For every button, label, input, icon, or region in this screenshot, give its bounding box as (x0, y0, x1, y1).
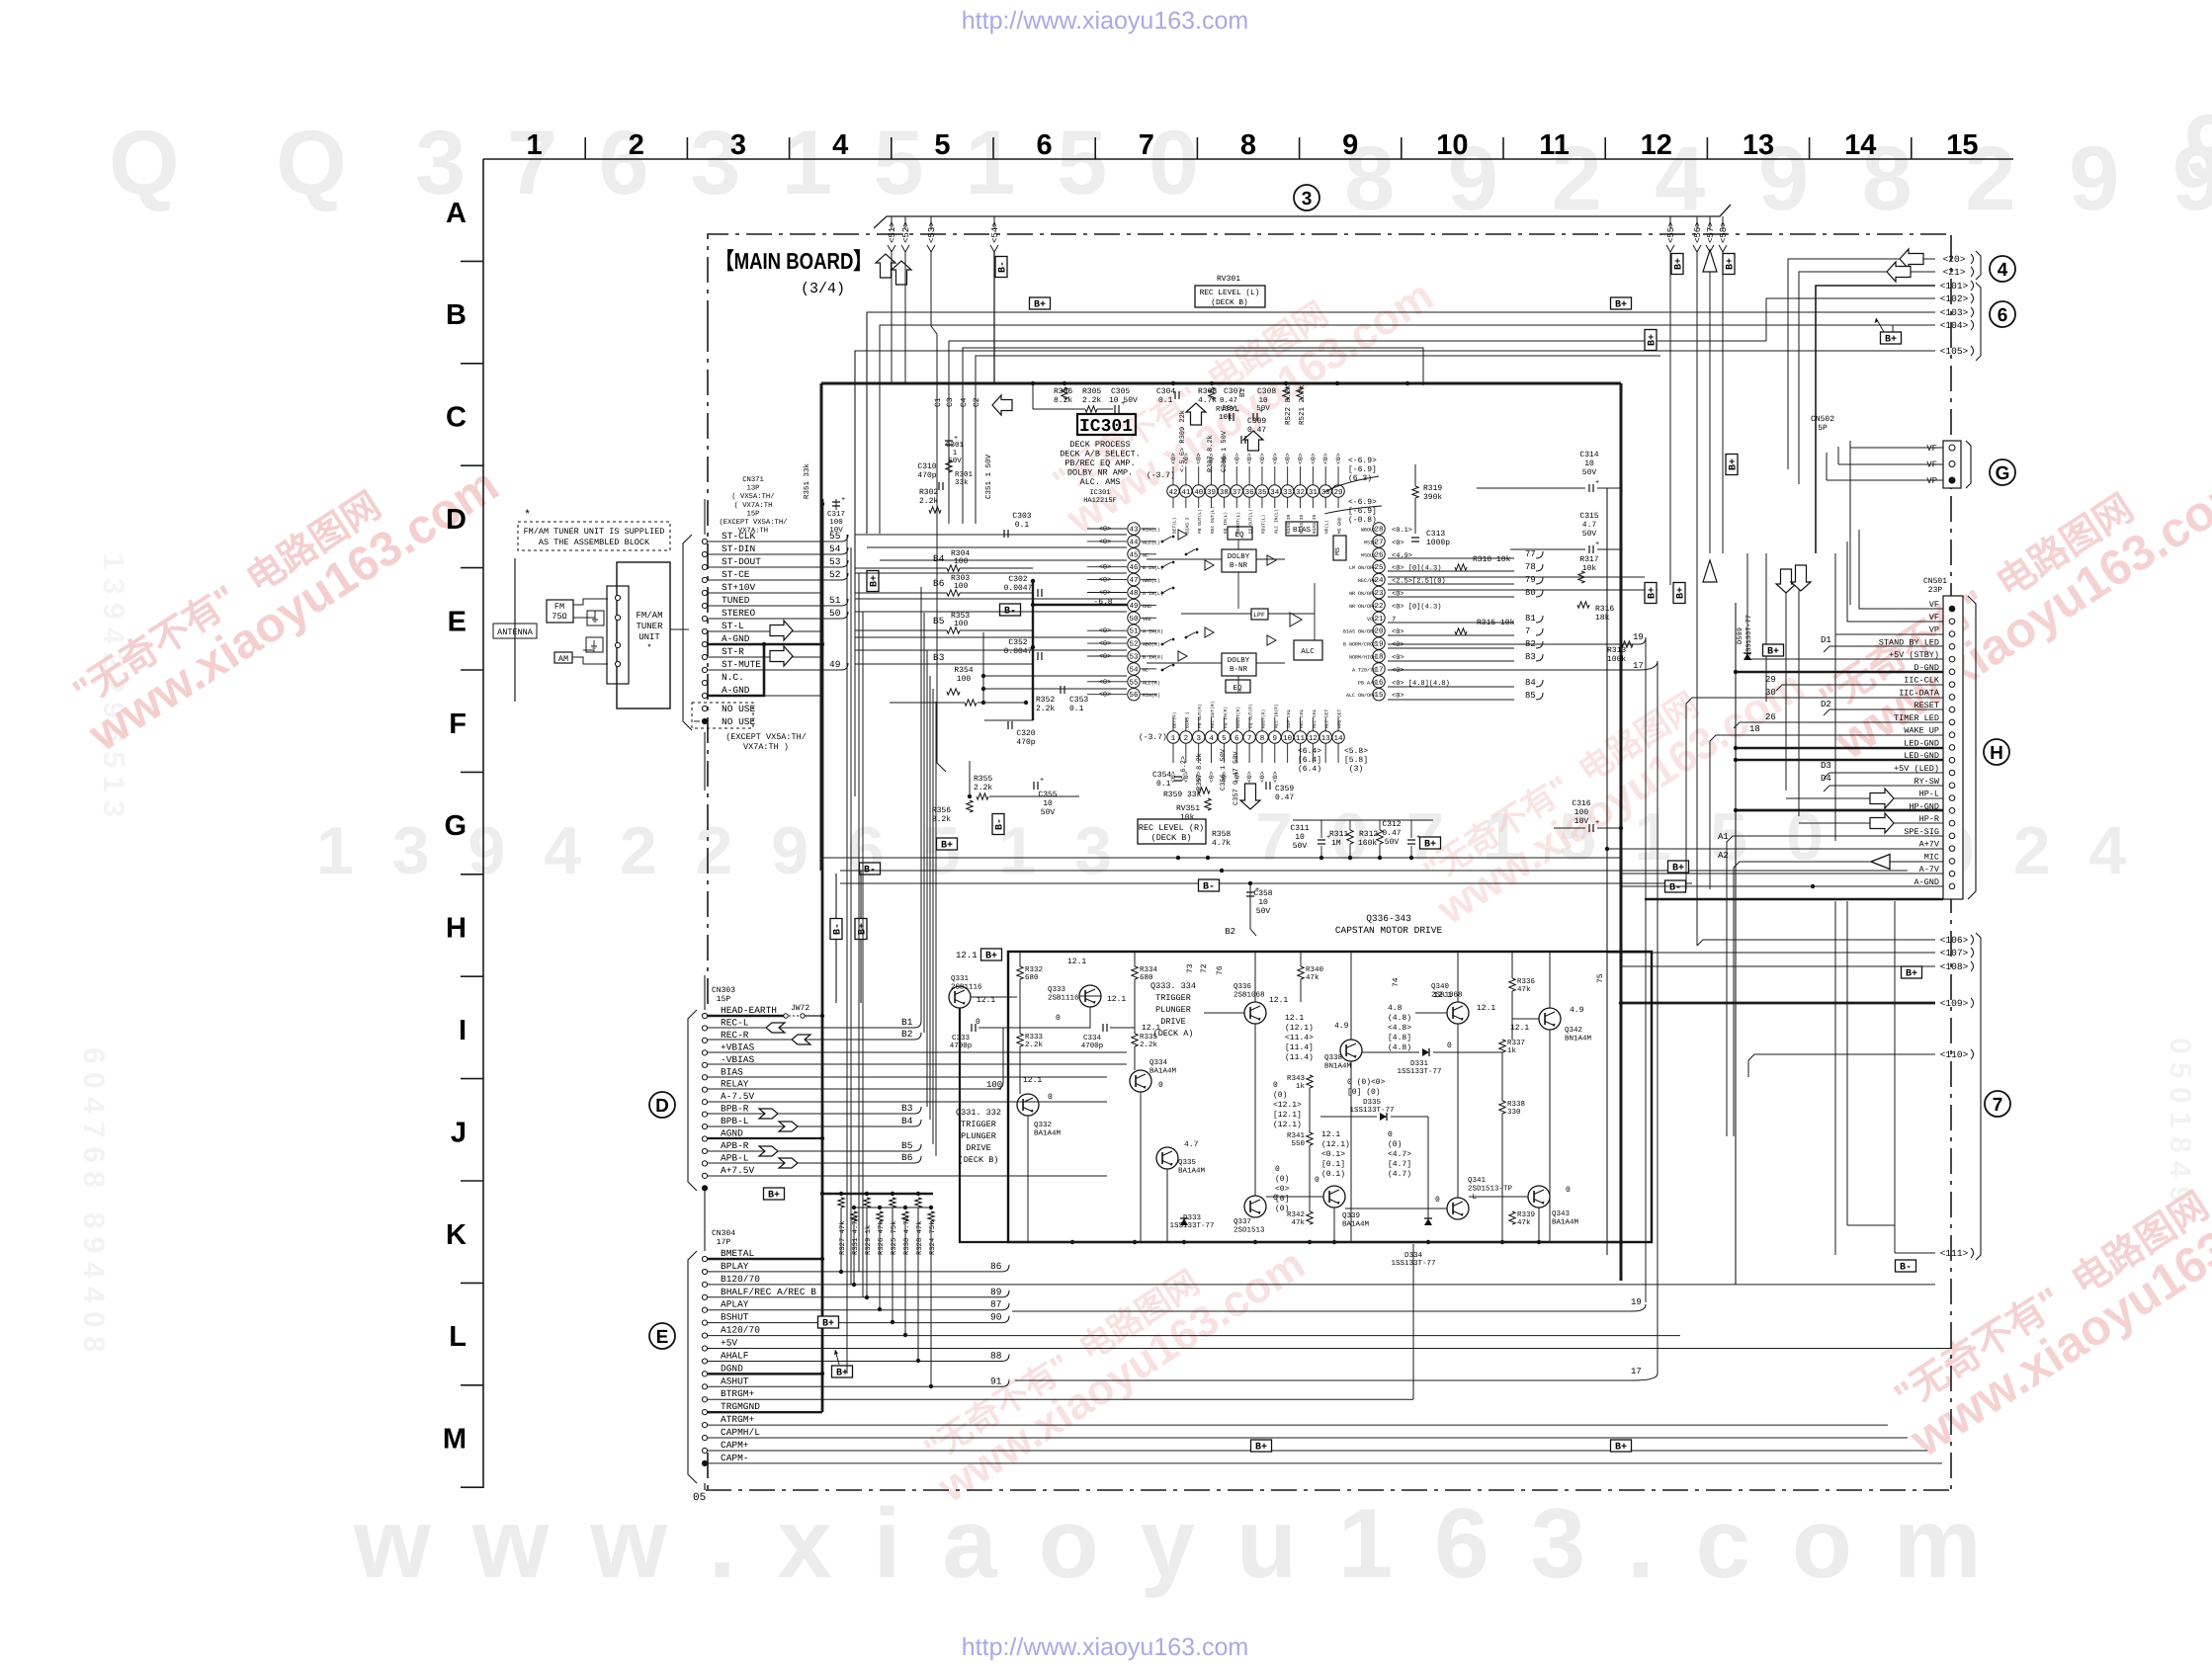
svg-text:ROUT(R): ROUT(R) (1260, 709, 1266, 728)
svg-text:43: 43 (1129, 526, 1139, 535)
svg-text:SUP CAL: SUP CAL (1286, 708, 1292, 728)
node 7 sheet ref (1985, 1091, 2010, 1117)
svg-text:VP: VP (1926, 476, 1937, 486)
svg-text:4.7: 4.7 (1582, 521, 1597, 530)
svg-text:12.1: 12.1 (1433, 991, 1452, 1000)
svg-text:BIAS: BIAS (721, 1066, 743, 1077)
svg-text:17: 17 (1631, 1367, 1642, 1376)
svg-text:B NORM/CRO2: B NORM/CRO2 (1343, 642, 1376, 648)
arrow up feed 51 (876, 254, 895, 278)
power B+ near 104 (1881, 332, 1902, 344)
svg-text:I: I (459, 1015, 467, 1046)
power B+ rotated right CN column (1726, 455, 1740, 475)
svg-text:B+: B+ (822, 1319, 834, 1330)
capacitor C333 (972, 1024, 976, 1032)
svg-text:C302: C302 (1008, 575, 1027, 584)
svg-text:MIC: MIC (1924, 852, 1939, 862)
svg-text:<105>: <105> (1940, 346, 1969, 357)
svg-text:R359 33k: R359 33k (1163, 791, 1202, 799)
svg-text:2SB1116: 2SB1116 (1048, 994, 1079, 1003)
svg-text:RY-SW: RY-SW (1914, 777, 1939, 787)
svg-text:10: 10 (1283, 734, 1293, 743)
svg-text:VEE: VEE (1143, 617, 1151, 623)
svg-text:48: 48 (1129, 589, 1138, 598)
connector CN501 pin +5V (LED) (1949, 770, 1955, 776)
svg-text:47: 47 (1129, 577, 1138, 585)
svg-text:34: 34 (1270, 488, 1280, 497)
svg-text:33: 33 (1283, 488, 1293, 497)
svg-text:BSHUT: BSHUT (721, 1312, 749, 1323)
connector CN501 pin STAND BY LED (1949, 644, 1955, 650)
svg-text:CN304: CN304 (712, 1229, 735, 1238)
svg-text:<0>: <0> (1310, 453, 1317, 464)
svg-text:8: 8 (1260, 734, 1265, 743)
svg-text:<-6.9>: <-6.9> (1348, 457, 1377, 465)
svg-text:0.47: 0.47 (1275, 793, 1294, 802)
svg-text:(-3.7): (-3.7) (1139, 733, 1167, 742)
svg-text:H: H (446, 913, 467, 945)
svg-text:NO USE: NO USE (722, 716, 756, 727)
svg-text:C304: C304 (1156, 387, 1175, 396)
svg-text:(0): (0) (1388, 1140, 1402, 1149)
svg-text:WAKE UP: WAKE UP (1904, 726, 1939, 736)
svg-text:D4: D4 (1821, 774, 1831, 784)
svg-text:8.2k: 8.2k (932, 815, 951, 824)
svg-text:8: 8 (1240, 129, 1256, 161)
svg-text:GND: GND (1143, 604, 1151, 610)
svg-text:0.0047: 0.0047 (1004, 647, 1033, 656)
svg-text:(DECK B): (DECK B) (959, 1155, 999, 1165)
svg-text:8.2k: 8.2k (1054, 396, 1072, 405)
svg-text:NR ON/OFF: NR ON/OFF (1349, 604, 1376, 610)
bracket 106-111 (1976, 933, 1981, 1260)
svg-text:0.1: 0.1 (1015, 521, 1030, 530)
svg-text:<0>: <0> (1335, 453, 1342, 464)
svg-text:REC CAL: REC CAL (1299, 708, 1305, 728)
svg-text:A+7.5V: A+7.5V (721, 1165, 755, 1176)
REC LEVEL R box (1138, 819, 1206, 844)
svg-text:ST-DIN: ST-DIN (722, 543, 755, 554)
node H sheet ref (1984, 739, 2009, 765)
left long verticals under IC (846, 535, 848, 1374)
svg-text:2SB1068: 2SB1068 (1234, 991, 1265, 1000)
svg-text:R336: R336 (1517, 977, 1536, 986)
svg-text:<0>: <0> (1259, 771, 1266, 783)
transistor Q337 2SD1513 (1244, 1196, 1266, 1217)
svg-text:330: 330 (1507, 1108, 1521, 1117)
svg-text:<54>: <54> (990, 221, 1000, 243)
svg-text:BOOST(L): BOOST(L) (1235, 512, 1241, 534)
svg-text:2.2k: 2.2k (1082, 396, 1101, 405)
connector CN303 pin -VBIAS (702, 1062, 707, 1067)
connector CN371 pin ST-CE (702, 577, 707, 582)
svg-text:12.1: 12.1 (1285, 1014, 1304, 1023)
power B+ mid right (1611, 297, 1632, 309)
connector CN304 pin TRGMGND (702, 1410, 707, 1415)
thick VEE/GND bus near IC (1032, 581, 1034, 720)
motor block internal wires (1019, 952, 1021, 966)
power B+ near AHALF (832, 1366, 853, 1377)
svg-text:w w w . x i a o y u 1 6 3 . c: w w w . x i a o y u 1 6 3 . c o m (353, 1488, 1989, 1599)
svg-text:R302: R302 (919, 488, 938, 497)
svg-text:B+: B+ (1648, 334, 1659, 346)
svg-text:73: 73 (1186, 963, 1195, 973)
svg-text:35: 35 (1257, 488, 1267, 497)
svg-text:[12.1]: [12.1] (1273, 1111, 1302, 1120)
svg-text:D3: D3 (1821, 761, 1831, 771)
svg-text:46: 46 (1129, 563, 1139, 572)
svg-text:R358: R358 (1212, 830, 1231, 839)
connector CN303 pin 1 (702, 1186, 707, 1191)
power B+ rotated pair b (1673, 583, 1687, 604)
svg-text:<0> [4.8](4.8): <0> [4.8](4.8) (1392, 679, 1450, 688)
wire 100 relay (708, 1088, 988, 1090)
svg-text:90: 90 (990, 1312, 1002, 1323)
wire bus y355 (855, 351, 1935, 593)
svg-text:0: 0 (1315, 1176, 1319, 1185)
thick A-GND tie (708, 643, 822, 646)
svg-text:BIAS IN: BIAS IN (1312, 514, 1318, 534)
svg-text:【MAIN BOARD】: 【MAIN BOARD】 (716, 248, 872, 274)
svg-text:B4: B4 (901, 1116, 913, 1126)
svg-text:[-6.9]: [-6.9] (1348, 465, 1377, 474)
svg-text:B+: B+ (836, 1369, 848, 1379)
wire 58 feed down (1722, 252, 1724, 553)
svg-text:37: 37 (1233, 488, 1241, 497)
svg-text:R335: R335 (1140, 1033, 1158, 1042)
wire CN303 B4 (708, 1125, 914, 1127)
transistor Q338 BN1A4M (1340, 1040, 1362, 1061)
svg-text:52: 52 (1129, 640, 1138, 649)
svg-text:<0>: <0> (1099, 627, 1112, 635)
svg-text:RV301: RV301 (1217, 275, 1240, 284)
CN501 wires (1859, 530, 1943, 609)
fat down arrows right top (1776, 569, 1796, 593)
HP-L row with fat arrow (1786, 797, 1943, 799)
svg-text:AHALF: AHALF (721, 1350, 749, 1361)
svg-text:B5: B5 (901, 1140, 913, 1151)
svg-text:<0>: <0> (1170, 453, 1177, 464)
connector CN501 pin SPE-SIG (1949, 833, 1955, 839)
bottom rail of block (1070, 1240, 1074, 1244)
svg-text:(-3.7): (-3.7) (1147, 471, 1175, 480)
svg-text:B6: B6 (933, 578, 945, 589)
svg-text:44: 44 (1129, 539, 1139, 546)
wire HEAD-EARTH thick (708, 1015, 784, 1018)
svg-text:APB-R: APB-R (721, 1140, 749, 1151)
svg-text:<104>: <104> (1940, 320, 1969, 331)
svg-text:13: 13 (1321, 734, 1331, 743)
connector CN501 pin A+7V (1949, 846, 1955, 852)
svg-text:B+: B+ (1615, 1443, 1627, 1454)
connector CN501 pin IIC-CLK (1949, 682, 1955, 688)
LPF box (1251, 609, 1268, 620)
svg-text:ALC IN(L): ALC IN(L) (1273, 509, 1279, 534)
svg-text:D333: D333 (1183, 1213, 1202, 1222)
resistor R327 47k (839, 1192, 843, 1196)
svg-text:R312: R312 (1359, 830, 1378, 839)
svg-text:BIAS IN: BIAS IN (1286, 514, 1292, 534)
svg-text:85: 85 (1525, 691, 1536, 701)
svg-text:+: + (1040, 777, 1044, 785)
svg-text:EQ OUT(L): EQ OUT(L) (1248, 509, 1254, 534)
svg-text:TRGMGND: TRGMGND (721, 1401, 760, 1412)
transistor Q335 BA1A4M (1156, 1147, 1178, 1169)
svg-text:0: 0 (1275, 1165, 1280, 1174)
svg-text:Q336: Q336 (1234, 982, 1252, 991)
svg-text:+VBIAS: +VBIAS (721, 1042, 755, 1052)
connector CN501 pin LED-GND (1949, 757, 1955, 763)
svg-text:C308: C308 (1257, 387, 1276, 396)
svg-text:(12.1): (12.1) (1273, 1121, 1302, 1129)
fat arrows near top of IC (992, 395, 1012, 415)
svg-text:Q342: Q342 (1565, 1026, 1582, 1035)
svg-text:PB/REC EQ AMP.: PB/REC EQ AMP. (1064, 458, 1135, 468)
connector CN304 pin BMETAL (702, 1256, 707, 1261)
svg-text:81: 81 (1525, 614, 1536, 624)
svg-text:<12.1>: <12.1> (1273, 1101, 1302, 1110)
svg-text:J: J (451, 1117, 467, 1148)
svg-text:12.1: 12.1 (1107, 995, 1126, 1004)
svg-text:2: 2 (1184, 734, 1189, 743)
connector CN303 pin A-7.5V (702, 1100, 707, 1105)
svg-text:RIN(L): RIN(L) (1143, 528, 1160, 534)
svg-text:C353: C353 (1069, 696, 1088, 705)
wire CN303 B3 (708, 1113, 914, 1115)
svg-text:DGND: DGND (721, 1363, 743, 1374)
capacitor C355 (1034, 782, 1038, 790)
svg-text:A-GND: A-GND (1914, 877, 1939, 887)
svg-text:75: 75 (1596, 973, 1605, 983)
wires into CN502 (1850, 447, 1943, 449)
svg-text:<0>: <0> (1275, 1185, 1290, 1194)
svg-text:12.1: 12.1 (956, 951, 978, 960)
misc internal wires IC (1147, 558, 1222, 560)
connector CN304 pin CAPMH/L (702, 1435, 707, 1440)
wire bus y329 (880, 325, 1893, 534)
svg-text:<53>: <53> (927, 221, 937, 243)
svg-text:[11.4]: [11.4] (1285, 1043, 1314, 1052)
svg-text:VP: VP (1929, 625, 1939, 635)
svg-text:C320: C320 (1016, 729, 1035, 738)
svg-text:B+: B+ (1255, 1443, 1267, 1454)
svg-text:550: 550 (1291, 1139, 1305, 1148)
svg-text:75Ω: 75Ω (552, 612, 566, 622)
svg-text:2.2k: 2.2k (919, 497, 938, 506)
svg-text:(4.8): (4.8) (1388, 1043, 1411, 1052)
svg-text:SPE-SIG: SPE-SIG (1904, 827, 1939, 837)
svg-text:R356: R356 (932, 806, 951, 815)
svg-text:H: H (1990, 743, 2003, 764)
svg-text:89: 89 (990, 1287, 1002, 1297)
transistor Q339 BA1A4M (1323, 1186, 1345, 1208)
svg-text:13: 13 (1743, 129, 1774, 161)
svg-text:B5: B5 (933, 616, 945, 626)
svg-text:<101>: <101> (1940, 281, 1969, 292)
svg-text:<0>: <0> (1099, 679, 1112, 687)
svg-text:R338: R338 (1507, 1100, 1525, 1109)
resistor R324 75k (929, 1206, 933, 1209)
antenna lead (514, 558, 516, 702)
svg-text:EQ IN(R): EQ IN(R) (1223, 707, 1229, 728)
resistor R341 550 (1307, 1132, 1313, 1145)
svg-text:86: 86 (990, 1261, 1002, 1272)
transistor Q331 2SB1116 (949, 986, 971, 1008)
wire risers below CN501 (1834, 901, 1836, 1255)
fat arrow ST-L out (770, 621, 793, 640)
svg-text:ROUT(L): ROUT(L) (1260, 515, 1266, 534)
connector CN304 pin ASHUT (702, 1384, 707, 1389)
svg-text:42: 42 (1168, 488, 1177, 497)
svg-text:47k: 47k (1306, 973, 1319, 982)
wire AM to tuner (572, 657, 608, 664)
connector CN304 bracket (688, 1251, 697, 1483)
resistor R343 1k (1307, 1075, 1313, 1088)
svg-text:EQ: EQ (1234, 531, 1244, 540)
svg-text:C356 1 50V: C356 1 50V (1220, 748, 1228, 791)
svg-text:IIC-CLK: IIC-CLK (1904, 676, 1940, 686)
connector CN303 pin APB-R (702, 1148, 707, 1153)
svg-text:(12.1): (12.1) (1285, 1024, 1314, 1033)
power B+ under CN303 (764, 1188, 785, 1200)
svg-text:ASHUT: ASHUT (721, 1375, 749, 1386)
svg-text:29: 29 (1765, 675, 1776, 685)
svg-text:A+7V: A+7V (1919, 840, 1940, 850)
svg-text:TRIGGER: TRIGGER (1155, 993, 1191, 1003)
svg-text:160k: 160k (1358, 839, 1377, 848)
svg-text:[4.7]: [4.7] (1388, 1160, 1411, 1169)
svg-text:0.1: 0.1 (1158, 396, 1173, 405)
svg-text:0.0047: 0.0047 (1004, 584, 1033, 593)
svg-text:19: 19 (1631, 1297, 1642, 1307)
wire 53 feed down (931, 252, 937, 524)
svg-text:0: 0 (1388, 1130, 1393, 1139)
svg-text:<0>: <0> (1285, 453, 1292, 464)
svg-text:52: 52 (829, 569, 841, 580)
thick right bus runs (1620, 874, 1623, 1281)
svg-text:10V: 10V (1574, 817, 1589, 826)
wire CN371 vertical stub top (704, 499, 706, 535)
power B- tag mid-left (1000, 604, 1021, 616)
svg-text:50V: 50V (1256, 907, 1271, 916)
svg-text:NC: NC (1143, 552, 1149, 558)
svg-text:4.9: 4.9 (1334, 1022, 1349, 1031)
svg-text:2.2k: 2.2k (1140, 1041, 1158, 1049)
svg-text:6: 6 (1998, 305, 2008, 326)
svg-text:IIC-DATA: IIC-DATA (1899, 688, 1940, 698)
plain CN303 wires (708, 1051, 1127, 1053)
watermark: pink rotated site marks (57, 425, 508, 763)
svg-text:D: D (446, 504, 467, 536)
svg-text:*: * (646, 643, 651, 653)
svg-text:2: 2 (629, 129, 644, 161)
wire B2 drop (1250, 883, 1256, 936)
svg-text:MSIN: MSIN (1364, 540, 1376, 545)
svg-text:41: 41 (1181, 489, 1191, 497)
svg-text:18: 18 (1749, 724, 1760, 734)
svg-text:<0.1>: <0.1> (1321, 1150, 1345, 1159)
svg-text:<-5.6> R309 22k: <-5.6> R309 22k (1178, 410, 1187, 472)
wire CN303 B6 (708, 1162, 914, 1164)
svg-text:R326 47k: R326 47k (877, 1220, 886, 1255)
svg-text:50: 50 (829, 608, 841, 619)
svg-text:(3/4): (3/4) (801, 281, 845, 297)
svg-text:17P: 17P (717, 1238, 731, 1247)
vertical riser bundle x932-947 (920, 587, 922, 1021)
ruler row ticks and letters (461, 260, 483, 262)
diode D331 (1422, 1048, 1429, 1056)
svg-text:A1: A1 (1718, 832, 1729, 842)
svg-text:D: D (655, 1096, 669, 1117)
svg-text:10: 10 (1436, 129, 1468, 161)
resistor R335 2.2k (1132, 1034, 1138, 1046)
svg-text:C301: C301 (946, 441, 965, 450)
svg-text:BET(R): BET(R) (1172, 711, 1178, 728)
svg-text:+: + (1259, 408, 1263, 416)
svg-text:R334: R334 (1140, 965, 1158, 974)
connector CN303 pin HEAD-EARTH (702, 1013, 707, 1018)
svg-text:C303: C303 (1012, 512, 1031, 521)
svg-text:ST+10V: ST+10V (722, 582, 756, 593)
svg-text:Q337: Q337 (1234, 1217, 1251, 1226)
svg-text:5P: 5P (1818, 424, 1828, 433)
A+7V row (1607, 848, 1943, 850)
svg-text:RELAY: RELAY (721, 1079, 749, 1090)
svg-text:CAPM+: CAPM+ (721, 1440, 749, 1451)
svg-text:<0>: <0> (1196, 453, 1203, 464)
connector CN501 pin A-GND (1949, 883, 1955, 889)
svg-text:RIN(R): RIN(R) (1143, 693, 1160, 699)
curved pointer arcs (1324, 476, 1379, 492)
group brackets (1976, 251, 1981, 280)
wire bus y342 C-group bend (949, 341, 1766, 524)
svg-text:2SD1513-TP: 2SD1513-TP (1468, 1185, 1513, 1194)
svg-text:K: K (446, 1219, 467, 1251)
resistor R329 1k (865, 1192, 869, 1196)
svg-text:<103>: <103> (1940, 307, 1969, 318)
svg-text:680: 680 (1025, 973, 1039, 982)
transistor Q333 2SB1116 (1079, 985, 1101, 1007)
svg-text:NR(L): NR(L) (1324, 520, 1330, 534)
svg-text:39: 39 (1207, 488, 1216, 497)
svg-text:(3): (3) (1349, 765, 1363, 774)
svg-text:BA1A4M: BA1A4M (1342, 1221, 1370, 1229)
svg-text:ALC IN(R): ALC IN(R) (1273, 704, 1279, 728)
main vertical bus x832 (B+) (821, 499, 824, 1194)
svg-text:ST-MUTE: ST-MUTE (722, 659, 761, 670)
diode D335 (1380, 1113, 1387, 1121)
svg-text:R352: R352 (1036, 696, 1055, 705)
svg-text:B+: B+ (1672, 864, 1684, 875)
svg-text:BTRGM+: BTRGM+ (721, 1388, 755, 1399)
svg-text:4: 4 (1998, 260, 2008, 281)
svg-text:(6.4): (6.4) (1298, 765, 1321, 774)
op-amp/IC block label IC301 (1077, 414, 1136, 435)
connector CN304 pin BHALF/REC A/REC B (702, 1294, 707, 1299)
switch symbols inside IC (1161, 541, 1164, 543)
connector CN371 bracket (683, 535, 692, 730)
arrow BPB-R (759, 1109, 778, 1119)
svg-text:B-NR: B-NR (1230, 666, 1248, 674)
svg-text:(0): (0) (1273, 1091, 1287, 1100)
border ruler top line (483, 158, 2013, 160)
svg-text:1: 1 (527, 129, 543, 161)
EQ box upper (1228, 527, 1252, 540)
svg-text:TUNED: TUNED (722, 595, 750, 606)
svg-text:DRIVE: DRIVE (1160, 1017, 1186, 1027)
svg-text:D331: D331 (1410, 1059, 1429, 1068)
svg-text:NO USE: NO USE (722, 704, 756, 714)
